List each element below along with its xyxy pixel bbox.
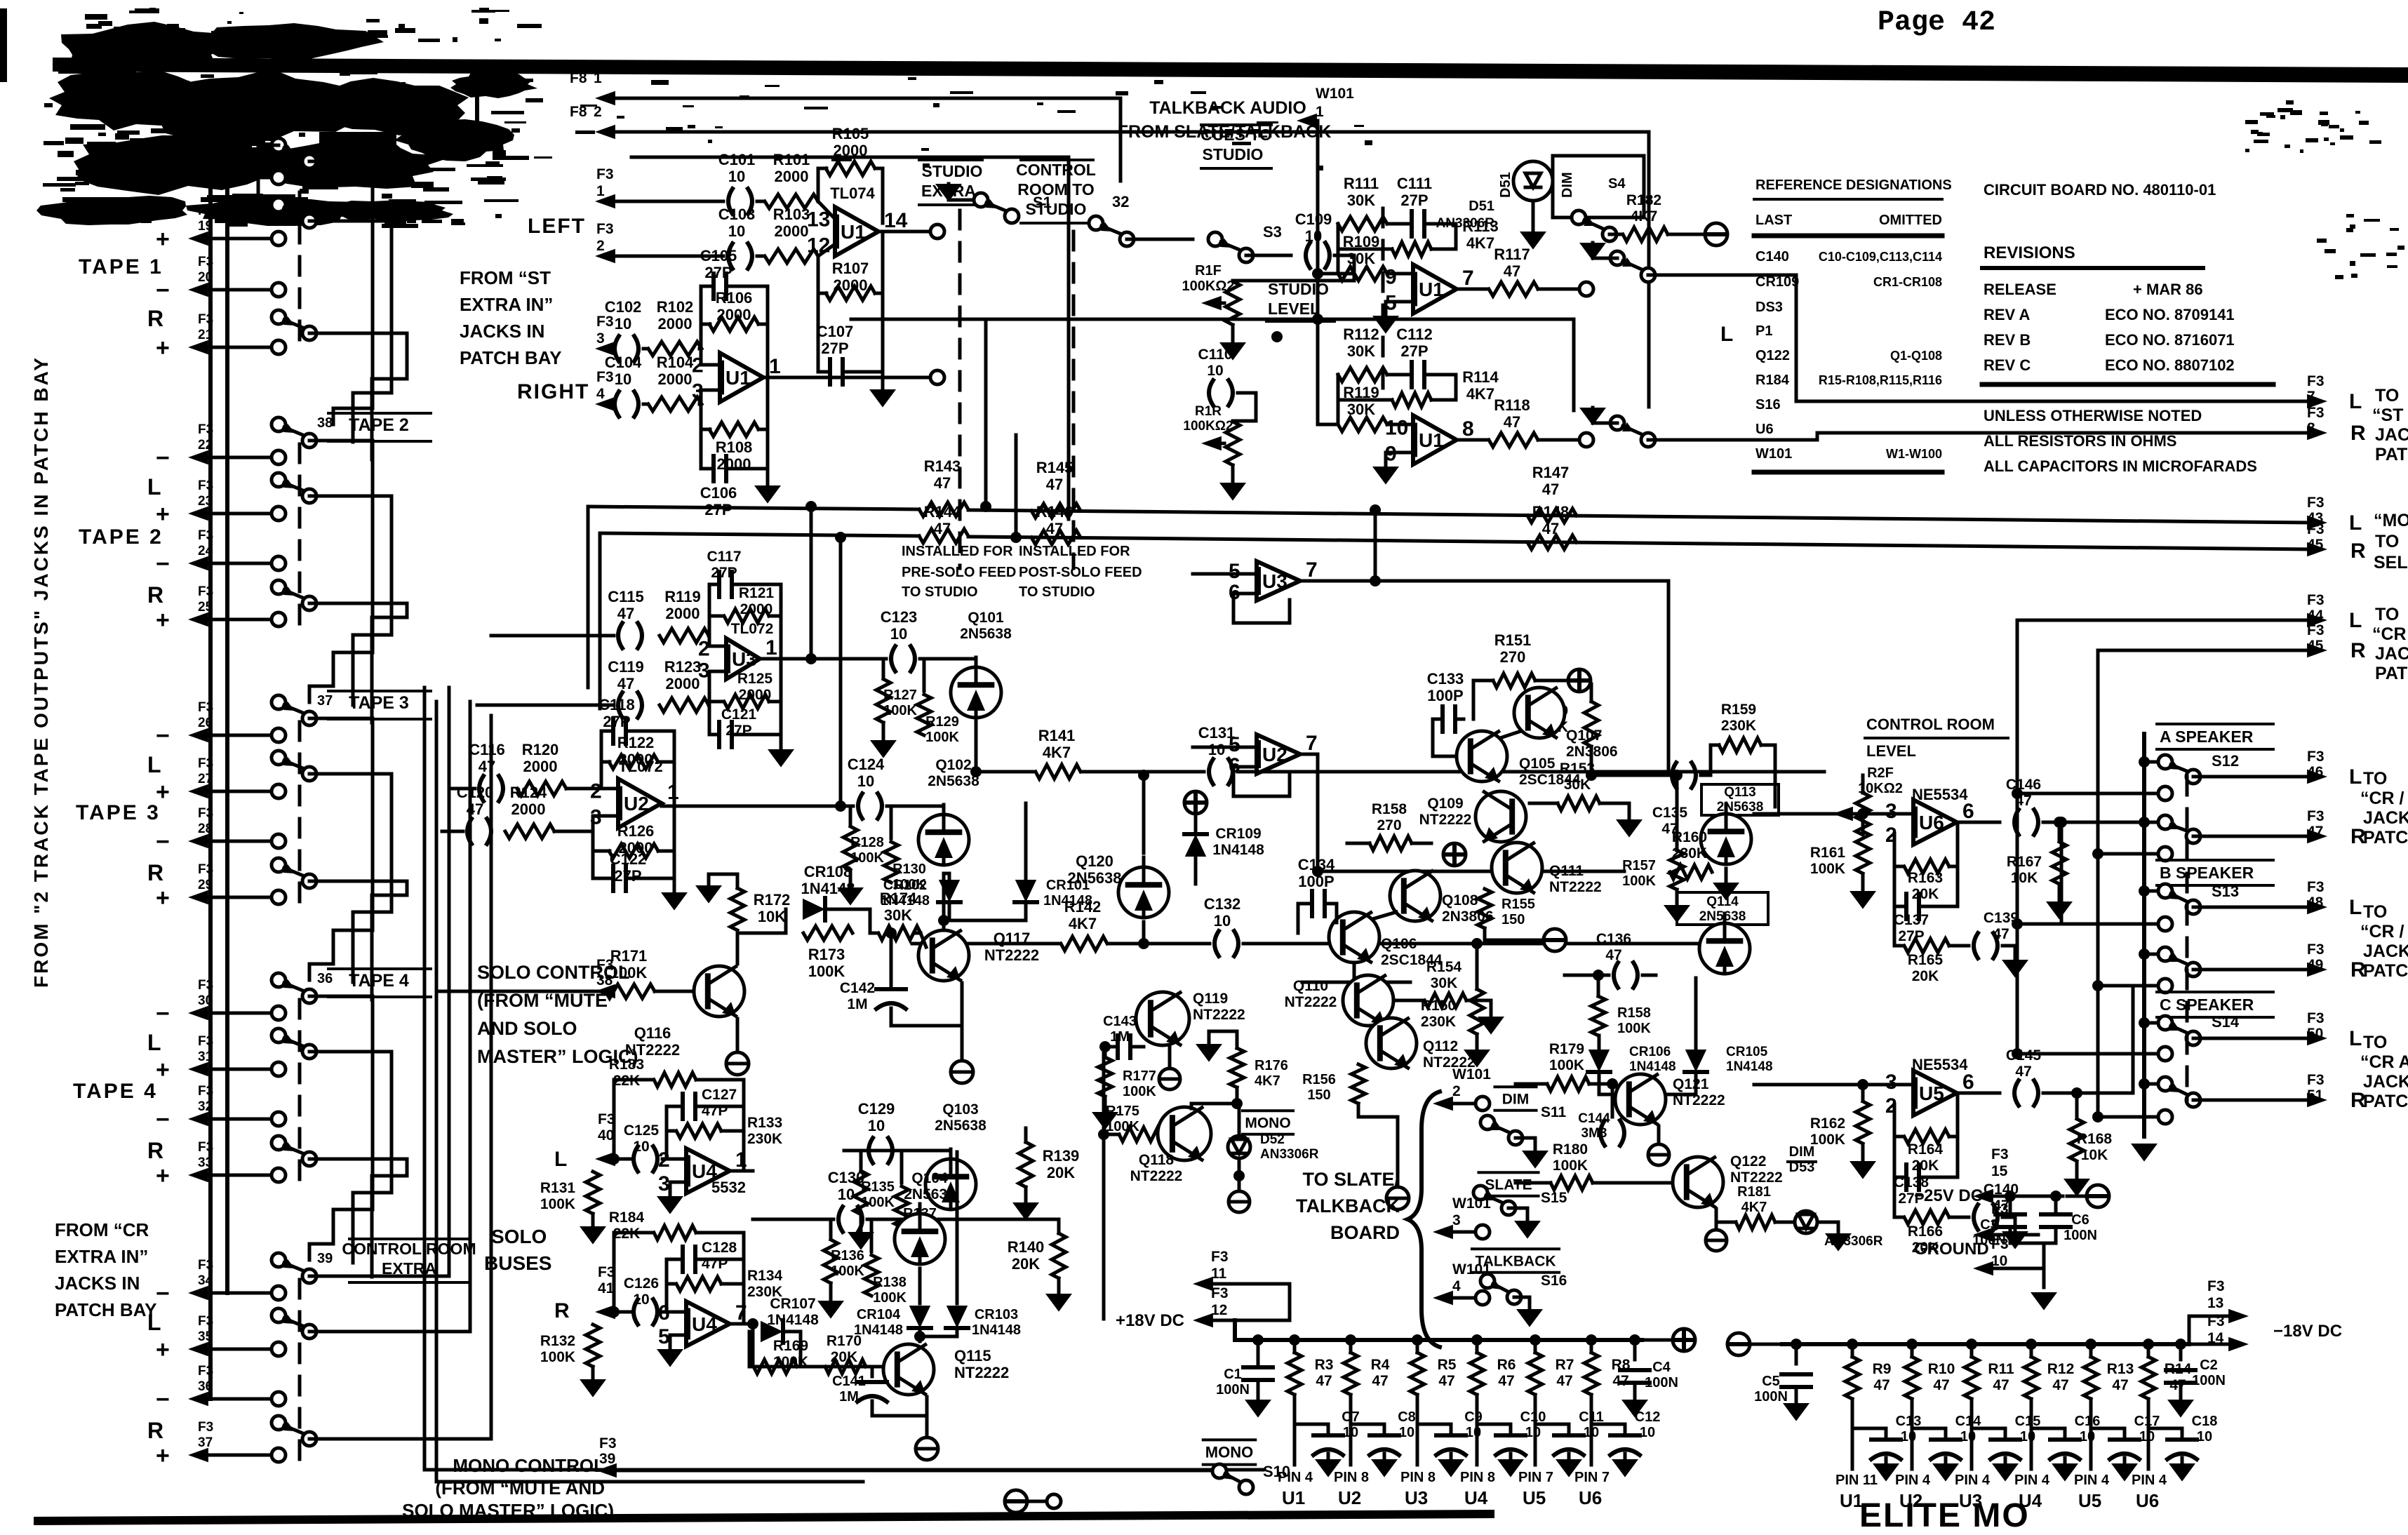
svg-text:7: 7: [1306, 732, 1318, 755]
ground: [1219, 465, 1246, 501]
switch S11: [1480, 1115, 1549, 1169]
svg-text:C130: C130: [828, 1169, 865, 1186]
svg-text:CR107: CR107: [770, 1296, 815, 1312]
wire U3 buffer input: [1193, 572, 1257, 576]
svg-text:100KΩ2: 100KΩ2: [1183, 419, 1233, 434]
net label DIM D53: [1788, 1144, 1816, 1175]
svg-text:C116: C116: [469, 741, 504, 758]
svg-text:R130: R130: [892, 862, 926, 877]
connector F3 21: [156, 312, 286, 361]
svg-text:C142: C142: [840, 980, 875, 996]
svg-text:U6: U6: [1919, 812, 1944, 833]
op-amp U6 NE5534: [1885, 786, 1974, 847]
switch S3: [1208, 223, 1282, 262]
svg-text:47: 47: [1605, 947, 1621, 963]
svg-text:C125: C125: [624, 1122, 660, 1139]
connector F3 45: [2307, 521, 2325, 553]
svg-text:TO SLATE/: TO SLATE/: [1302, 1169, 1400, 1190]
diode CR105 1N4148: [1685, 978, 1773, 1074]
wire riser switch2: [1010, 435, 1022, 543]
svg-text:R: R: [147, 1418, 163, 1443]
capacitor C101 10: [718, 151, 756, 214]
connector F3 46: [2307, 749, 2325, 780]
svg-text:1N4148: 1N4148: [1043, 893, 1092, 909]
connector F3 43: [2307, 495, 2325, 526]
svg-text:100K: 100K: [850, 850, 884, 866]
svg-text:C135: C135: [1652, 805, 1688, 821]
wire to switch: [1538, 288, 1579, 291]
wire U2 buffer input: [1193, 746, 1257, 749]
svg-text:“CR /: “CR /: [2360, 789, 2404, 808]
svg-text:CR102: CR102: [883, 878, 927, 893]
resistor R169 100K: [754, 1338, 808, 1374]
connector F3 19: [156, 203, 286, 253]
capacitor C13 10: [1852, 1414, 1921, 1482]
svg-text:47: 47: [1504, 413, 1520, 431]
svg-text:C5: C5: [1762, 1374, 1780, 1389]
svg-text:38: 38: [596, 972, 613, 988]
wire -18V rail: [1782, 1342, 2189, 1346]
resistor R111 30K: [1337, 175, 1387, 231]
diode CR104 1N4148: [854, 1268, 931, 1341]
svg-text:47: 47: [2112, 1377, 2128, 1393]
svg-text:R184: R184: [1755, 373, 1790, 388]
svg-text:F3: F3: [198, 1420, 213, 1435]
resistor R112 30K: [1337, 326, 1387, 382]
svg-text:1: 1: [594, 70, 602, 86]
svg-text:R168: R168: [2077, 1131, 2113, 1147]
svg-text:C102: C102: [605, 298, 642, 316]
svg-text:R: R: [147, 1138, 163, 1163]
wire group C L out: [2017, 613, 2327, 1054]
contact circle: [2158, 1047, 2172, 1061]
potentiometer R1R: [1183, 393, 1256, 465]
svg-text:100N: 100N: [1645, 1375, 1678, 1390]
svg-text:NT2222: NT2222: [1285, 994, 1337, 1010]
svg-text:27P: 27P: [603, 713, 630, 730]
svg-text:F3: F3: [2307, 879, 2325, 895]
ground: [817, 1283, 844, 1319]
svg-text:C109: C109: [1295, 210, 1332, 228]
svg-text:R147: R147: [1532, 464, 1570, 481]
svg-text:PIN 4: PIN 4: [2014, 1473, 2050, 1488]
resistor R157 100K: [1622, 770, 1690, 923]
wire U6 out to speaker bus: [2073, 821, 2158, 824]
svg-text:Q106: Q106: [1381, 936, 1417, 952]
svg-text:“CR: “CR: [2372, 624, 2407, 644]
resistor R156 150: [1302, 1064, 1398, 1186]
svg-text:DS3: DS3: [1755, 300, 1783, 315]
connector F3 39 mono control: [596, 1435, 1212, 1477]
svg-text:1N4148: 1N4148: [854, 1322, 903, 1338]
svg-text:2000: 2000: [666, 605, 700, 622]
svg-text:PIN 8: PIN 8: [1400, 1470, 1436, 1485]
svg-text:10: 10: [633, 1292, 649, 1308]
ground circle D52: [1229, 1158, 1250, 1212]
svg-text:D52: D52: [1260, 1132, 1285, 1147]
svg-text:JACKS: JACKS: [2375, 644, 2408, 664]
ground circle Q112: [1386, 1187, 1409, 1209]
connector F3 28: [156, 806, 286, 855]
svg-text:FROM “ST: FROM “ST: [460, 267, 551, 288]
svg-text:CR106: CR106: [1629, 1045, 1671, 1059]
svg-text:100K: 100K: [1622, 873, 1656, 889]
resistor R166 20K with C140: [1894, 1177, 1949, 1256]
svg-text:10: 10: [1385, 417, 1408, 440]
svg-text:AN3306R: AN3306R: [1260, 1147, 1319, 1162]
svg-text:L: L: [2349, 609, 2362, 632]
resistor R168 10K: [2063, 1087, 2112, 1197]
capacitor C127 47P: [667, 1087, 744, 1131]
svg-text:10K: 10K: [2011, 870, 2038, 886]
wire pin3: [700, 390, 720, 404]
node output circle: [930, 370, 944, 384]
potentiometer R1F 100KO2: [1182, 255, 1354, 325]
svg-text:LAST: LAST: [1755, 213, 1792, 228]
svg-text:2N3806: 2N3806: [1566, 744, 1618, 760]
contact circle: [2158, 979, 2172, 993]
wire riser2: [1289, 536, 1290, 537]
svg-text:PATCH BAY: PATCH BAY: [460, 347, 561, 368]
resistor R170 20K: [825, 1333, 866, 1374]
power plus rail: [1642, 1329, 1695, 1351]
transistor Q116 NT2222: [625, 966, 744, 1059]
svg-text:NT2222: NT2222: [1673, 1092, 1725, 1108]
label PIN 4 U4: [2014, 1473, 2050, 1511]
capacitor C109 10: [1295, 210, 1332, 268]
svg-text:C126: C126: [624, 1275, 659, 1292]
svg-text:R5: R5: [1438, 1357, 1457, 1373]
svg-text:F3: F3: [2207, 1313, 2225, 1329]
svg-text:2000: 2000: [775, 168, 809, 185]
svg-text:C120: C120: [457, 784, 494, 801]
switch L lower: [272, 751, 286, 765]
svg-text:10: 10: [1640, 1425, 1655, 1440]
switch S1: [935, 184, 1052, 223]
svg-text:+: +: [156, 1162, 170, 1189]
wire studio return bus: [851, 314, 1574, 410]
transistor Q119 NT2222: [1136, 991, 1245, 1045]
svg-text:45: 45: [2307, 537, 2324, 553]
svg-text:47: 47: [1873, 1377, 1889, 1393]
ground circle Q121: [1648, 1126, 1669, 1165]
svg-text:2N5638: 2N5638: [960, 626, 1012, 642]
wire tape1 drops: [243, 91, 258, 205]
svg-text:F3: F3: [596, 221, 614, 237]
ground circle Q122: [1706, 1209, 1727, 1251]
svg-text:20K: 20K: [1912, 968, 1939, 984]
wire riser switch1: [980, 323, 991, 512]
wire ground bus: [2010, 1243, 2056, 1287]
svg-text:DIM: DIM: [1502, 1091, 1530, 1107]
resistor R105 2000 feedback: [818, 125, 883, 223]
svg-text:JACKS: JACKS: [2363, 1072, 2408, 1092]
svg-text:C115: C115: [608, 588, 643, 605]
svg-text:R131: R131: [540, 1180, 576, 1196]
connector F3 31: [156, 1034, 286, 1083]
svg-text:C141: C141: [832, 1374, 866, 1389]
svg-text:EXTRA IN”: EXTRA IN”: [460, 294, 553, 315]
svg-text:10K: 10K: [758, 908, 786, 925]
svg-text:STUDIO: STUDIO: [1268, 280, 1329, 298]
svg-text:R123: R123: [664, 658, 702, 676]
switch R lower: [272, 580, 286, 594]
svg-text:37: 37: [317, 693, 333, 709]
svg-text:100K: 100K: [1810, 861, 1845, 877]
svg-text:TO: TO: [2375, 605, 2399, 624]
power minus: [1544, 929, 1566, 951]
svg-text:100K: 100K: [861, 1195, 895, 1210]
wire U3 out: [1300, 579, 1488, 583]
ground: [1012, 1187, 1039, 1221]
svg-text:47: 47: [1542, 520, 1559, 537]
svg-text:−: −: [156, 277, 170, 304]
wire bus top corners: [210, 84, 477, 125]
svg-text:15: 15: [1991, 1163, 2008, 1179]
svg-text:R121: R121: [739, 585, 775, 601]
wire U3 line corner down: [1488, 581, 1668, 775]
svg-text:R4: R4: [1371, 1357, 1390, 1373]
capacitor C146 47: [2006, 777, 2098, 835]
svg-text:C128: C128: [702, 1240, 737, 1256]
svg-text:U3: U3: [732, 648, 757, 670]
ground: [869, 372, 896, 408]
transistor Q101 2N5638: [920, 610, 1012, 718]
diode CR102 1N4148: [881, 873, 961, 920]
svg-text:NT2222: NT2222: [1549, 879, 1602, 895]
svg-text:3: 3: [658, 1172, 670, 1195]
connector F3 13: [2189, 1278, 2249, 1344]
svg-text:C136: C136: [1596, 931, 1631, 947]
wire solo logic base line: [749, 1365, 881, 1369]
svg-text:−: −: [156, 165, 170, 192]
ground at +in: [1372, 453, 1413, 485]
resistor 230K inner feedback R134: [667, 1268, 783, 1324]
wire staircase bundle tape2-3: [309, 441, 407, 723]
capacitor C107 27P: [817, 293, 883, 384]
svg-text:100P: 100P: [1298, 873, 1334, 890]
svg-text:POST-SOLO FEED: POST-SOLO FEED: [1019, 565, 1142, 580]
svg-text:R: R: [147, 306, 163, 331]
svg-text:REFERENCE DESIGNATIONS: REFERENCE DESIGNATIONS: [1755, 177, 1952, 193]
label TO CR A JACKS PATCH C: [2360, 1033, 2408, 1111]
svg-text:20K: 20K: [831, 1349, 858, 1365]
connector W101 4: [1433, 1261, 1491, 1305]
svg-text:47: 47: [479, 758, 495, 775]
svg-text:R179: R179: [1549, 1041, 1584, 1057]
svg-text:Q122: Q122: [1755, 348, 1790, 363]
svg-text:TAPE 3: TAPE 3: [76, 801, 161, 824]
svg-text:10: 10: [1207, 363, 1223, 379]
svg-text:R165: R165: [1908, 952, 1944, 968]
svg-text:−: −: [156, 1280, 170, 1307]
svg-text:4: 4: [596, 386, 605, 402]
svg-text:1N4148: 1N4148: [767, 1312, 819, 1328]
svg-text:PIN 4: PIN 4: [1895, 1473, 1931, 1488]
resistor R117 47: [1489, 246, 1538, 296]
svg-text:3: 3: [1885, 800, 1897, 823]
svg-text:U2: U2: [624, 793, 649, 815]
diode CR101 1N4148: [938, 803, 1092, 926]
svg-text:DIM: DIM: [1560, 172, 1575, 198]
svg-text:R183: R183: [609, 1057, 644, 1073]
resistor R13 47: [2084, 1339, 2134, 1469]
svg-text:−: −: [156, 829, 170, 855]
wire out R to ST: [1817, 426, 2327, 440]
resistor R150 230K: [1421, 938, 1490, 1068]
FET Q114 2N5638: [1677, 892, 1768, 974]
switch S14 R: [2158, 1077, 2200, 1107]
svg-text:30K: 30K: [884, 906, 912, 924]
svg-text:JACK: JACK: [2375, 425, 2408, 445]
svg-text:C8: C8: [1398, 1409, 1416, 1425]
label PIN 7 U5: [1518, 1470, 1553, 1508]
op-amp U5 NE5534: [1885, 1056, 1974, 1118]
scan noise blobs: [36, 8, 2404, 279]
svg-text:S16: S16: [1755, 397, 1781, 413]
capacitor C103 10: [718, 206, 756, 269]
svg-text:STUDIO: STUDIO: [922, 162, 983, 180]
resistor R101 2000: [757, 151, 818, 208]
junction: [1370, 575, 1381, 586]
svg-text:L: L: [2349, 1027, 2362, 1050]
switch S12 L: [2158, 752, 2239, 784]
capacitor C123 10: [881, 608, 918, 671]
ground noninverting: [657, 1182, 686, 1214]
capacitor C1 100N: [1216, 1334, 1273, 1418]
connector F3 12: [1193, 1285, 1235, 1327]
svg-text:−: −: [156, 1386, 170, 1413]
wire mixer1 input: [1337, 272, 1351, 276]
svg-text:2000: 2000: [834, 276, 868, 294]
net label CONTROL ROOM EXTRA: [342, 1239, 476, 1282]
wire U4a out riser up: [752, 1151, 754, 1171]
svg-text:R122: R122: [617, 734, 655, 751]
resistor R128 100K: [843, 806, 884, 870]
resistor R174 30K: [870, 890, 921, 940]
svg-text:U3: U3: [1262, 570, 1287, 592]
svg-text:100P: 100P: [1427, 687, 1463, 704]
wire stage3 bus: [863, 1149, 914, 1153]
resistor R153 30K: [1530, 760, 1643, 838]
connector W101 1: [1297, 86, 1354, 128]
svg-text:F3: F3: [2307, 495, 2325, 511]
svg-text:C144: C144: [1578, 1111, 1610, 1126]
svg-text:27P: 27P: [725, 723, 751, 739]
svg-text:R167: R167: [2007, 854, 2042, 870]
power minus mono: [1005, 1490, 1061, 1513]
resistor R139 20K: [1019, 1128, 1079, 1187]
resistor R147 47: [1527, 464, 1577, 523]
label PIN 8 U3: [1400, 1470, 1436, 1508]
svg-text:1M: 1M: [839, 1389, 859, 1405]
svg-text:R144: R144: [924, 503, 961, 521]
resistor R172 10K: [695, 874, 790, 964]
svg-text:8: 8: [2307, 420, 2315, 436]
svg-text:TAPE 4: TAPE 4: [349, 971, 409, 991]
resistor R7 47: [1528, 1334, 1574, 1465]
connector F3 2: [595, 221, 615, 263]
svg-text:JACKS IN: JACKS IN: [460, 321, 544, 342]
svg-text:1N4148: 1N4148: [801, 880, 855, 897]
svg-text:R146: R146: [1036, 503, 1073, 521]
wire S1 out: [937, 216, 1012, 232]
svg-text:10: 10: [633, 1139, 649, 1155]
svg-text:U1: U1: [1282, 1487, 1305, 1508]
svg-text:NE5534: NE5534: [1912, 1056, 1968, 1073]
wire Q106 emitter: [1353, 965, 1356, 982]
svg-text:Page 42: Page 42: [1878, 7, 1995, 39]
resistor R158b 100K: [1591, 970, 1651, 1036]
transistor Q111 NT2222: [1492, 843, 1602, 895]
svg-text:+: +: [156, 1336, 170, 1363]
power minus: [1668, 223, 1727, 246]
wire input row: [610, 347, 612, 351]
wire stage frame: [867, 657, 883, 661]
resistor R113 4K7 feedback: [1338, 217, 1499, 274]
svg-text:C106: C106: [700, 484, 737, 502]
op-amp U2: [1229, 732, 1318, 796]
wire S14L out: [2193, 1037, 2312, 1040]
svg-text:(FROM “MUTE AND: (FROM “MUTE AND: [435, 1477, 605, 1499]
svg-text:L: L: [147, 194, 161, 219]
svg-text:(FROM “MUTE: (FROM “MUTE: [477, 990, 608, 1011]
svg-text:R160: R160: [1672, 829, 1707, 845]
svg-text:U6: U6: [1579, 1487, 1602, 1508]
svg-text:JACKS IN: JACKS IN: [55, 1273, 140, 1294]
wire U2 out: [1300, 754, 1624, 871]
resistor R145 47: [1031, 459, 1081, 518]
resistor R179 100K: [1516, 1041, 1612, 1091]
svg-text:MONO: MONO: [1245, 1115, 1290, 1131]
notes unless otherwise noted: [1984, 407, 2257, 475]
resistor R129 100K: [917, 659, 959, 745]
capacitor C4 100N: [1620, 1334, 1678, 1418]
svg-text:47: 47: [1438, 1373, 1454, 1389]
svg-text:NT2222: NT2222: [1193, 1007, 1245, 1023]
capacitor C121 27P: [709, 702, 781, 747]
svg-text:100N: 100N: [2192, 1373, 2226, 1388]
wire top bus 3: [631, 157, 1069, 519]
table REVISIONS: [1982, 243, 2273, 384]
svg-text:C127: C127: [702, 1087, 737, 1103]
svg-text:PRE-SOLO FEED: PRE-SOLO FEED: [902, 565, 1016, 580]
resistor R177 100K: [1092, 1041, 1156, 1130]
svg-text:C SPEAKER: C SPEAKER: [2160, 996, 2254, 1014]
capacitor C102 10: [605, 298, 642, 361]
connector F3 51: [2307, 1072, 2325, 1104]
resistor R131 100K: [540, 1159, 606, 1245]
svg-text:R158: R158: [1617, 1005, 1651, 1021]
svg-text:2000: 2000: [666, 675, 700, 692]
svg-text:NT2222: NT2222: [1130, 1168, 1183, 1184]
resistor R119 30K input: [1338, 384, 1413, 431]
svg-text:R173: R173: [808, 946, 845, 963]
wire F8 2: [612, 132, 1649, 407]
svg-text:CR104: CR104: [857, 1307, 901, 1322]
wire Q103 drain: [950, 1214, 951, 1256]
svg-text:W101: W101: [1755, 446, 1792, 462]
wire out L to ST: [1796, 275, 2327, 408]
switch S4: [1572, 210, 1617, 241]
svg-text:C112: C112: [1396, 326, 1432, 343]
svg-text:SLATE: SLATE: [1485, 1177, 1532, 1193]
svg-text:MONO CONTROL: MONO CONTROL: [453, 1455, 605, 1476]
svg-text:F8: F8: [570, 104, 587, 120]
svg-text:10: 10: [868, 1117, 885, 1134]
svg-text:100N: 100N: [1216, 1382, 1250, 1397]
svg-text:JACKS: JACKS: [2363, 808, 2408, 828]
